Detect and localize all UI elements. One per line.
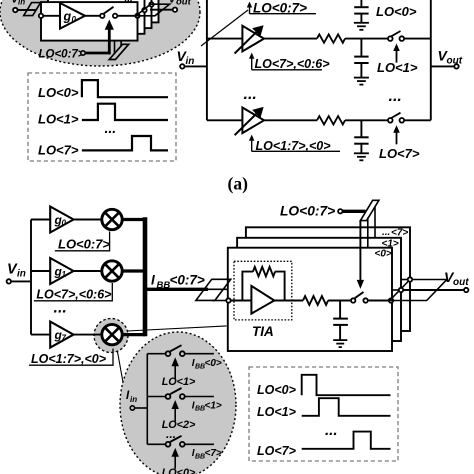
svg-text:in: in [186,56,195,67]
row3 resistor [317,116,345,124]
svg-text:<1>: <1> [205,400,222,411]
svg-text:LO<1>: LO<1> [377,60,418,75]
TIA op-amp triangle [251,286,274,314]
input bus vertical (a) [206,0,208,120]
row2 capacitor [354,39,368,78]
svg-text:<7>: <7> [391,228,408,239]
wire switch to output nodes [117,15,136,17]
input terminal Vin (bubble a) [11,0,25,12]
waveform LO<1> (a) [82,104,168,120]
svg-text:...: ... [382,227,390,238]
row2 variable amplifier [235,25,264,53]
wire bundle parallelogram (input, bubble a) [24,3,41,16]
label IBB<0:7> [151,273,205,292]
waveform LO<1> (b) [302,398,391,416]
LO<0:7> terminal and label (bubble a) [39,49,86,61]
output bus vertical (a) [430,0,432,120]
svg-text:LO<7>: LO<7> [38,143,79,158]
row3 switch control arrow [393,125,400,144]
svg-text:in: in [17,269,26,280]
svg-text:<7>: <7> [205,448,222,459]
stacked TIA box 1 (front, b) [228,248,392,351]
amplifier g7 (b) [50,322,73,348]
wire Iin to rail [135,407,148,409]
thin bus stub lower (input, b) [212,300,226,302]
svg-text:0: 0 [62,219,67,228]
svg-text:LO<7>: LO<7> [379,146,420,161]
thick LO arrow up [105,20,114,55]
row2 gain label LO<7>,<0:6> with arrow bracket [249,53,330,72]
svg-text:1: 1 [62,270,67,279]
wire bundle parallelogram (LO, b) [360,200,379,220]
svg-text:g: g [63,10,72,24]
wire switch to output node (b) [368,300,389,302]
row3 gain label LO<1:7>,<0> with arrow bracket [249,135,340,154]
amplifier g0 (bubble a) [60,3,85,29]
svg-text:<0:7>: <0:7> [170,273,205,288]
svg-text:...: ... [54,300,67,317]
node on box3 right edge [149,2,153,6]
row2 ground [354,78,369,85]
LO line to box2 [367,218,369,248]
zoom pointer line from bubble to row1 label [201,10,248,46]
row2 wire switch to output bus [404,38,431,40]
row2 switch [388,31,404,41]
bubble row1 control arrow [172,357,179,379]
svg-text:LO<0:7>: LO<0:7> [39,49,85,61]
stub and node on box3 right edge [401,277,412,281]
thick wire mixer1 to bus [122,218,145,221]
thick IBB<0:7> output line [145,288,208,291]
svg-text:LO<0>: LO<0> [257,383,297,397]
thick wire mixer2 to bus [122,269,145,272]
(b) input bus vertical [30,220,32,335]
wire bundle parallelogram (LO, bubble a) [109,40,129,60]
mixer M0 [102,209,122,229]
series resistor (b) [303,296,328,305]
wire bundle parallelogram (output, bubble a) [136,4,170,16]
svg-text:LO<7>,<0:6>: LO<7>,<0:6> [36,288,112,302]
svg-text:LO<7>: LO<7> [257,444,297,458]
TIA dotted box [234,261,292,320]
thick LO wire [85,52,110,55]
row1 (a, cut at top): label LO<0:7> with arrow bracket [247,1,316,16]
wire bundle parallelogram (input, b) [196,279,231,300]
node on box edge [39,14,43,18]
svg-text:in: in [130,395,137,404]
svg-text:...: ... [389,88,402,105]
main circuit (a) : input terminal Vin [177,48,195,69]
bubble row3 label IBB<7> [192,448,222,460]
output terminal Vout (bubble a) [169,0,192,12]
wire bundle parallelogram (output, b) [390,280,447,301]
input rail vertical (bubble b) [146,354,148,445]
svg-text:LO<1>: LO<1> [257,405,297,419]
output node on box1 right edge [389,298,393,302]
svg-text:LO<0>: LO<0> [38,85,79,100]
svg-text:I: I [151,273,155,288]
row3 (a): wire from bus corner to amp [207,119,243,121]
stub and node on box2 right edge [392,288,403,292]
row3 wire switch to output bus [404,119,431,121]
waveform legend box (a) [28,73,176,161]
row3 wire amp to resistor [264,119,317,121]
waveform LO<0> (b) [302,375,391,395]
svg-text:LO<1>: LO<1> [38,112,79,127]
wire TIA output to resistor [274,300,303,302]
svg-text:in: in [18,0,25,7]
(b) row3 wire bus to amp [31,334,50,336]
amplifier g0 (b) [50,207,73,233]
row2 switch control arrow [393,44,400,63]
wire node to amp [41,15,60,17]
thick LO wire (b) [343,210,366,213]
wire Vin to input bus [185,65,207,67]
svg-text:BB: BB [157,280,171,291]
svg-text:TIA: TIA [252,324,274,339]
svg-text:out: out [176,0,192,8]
waveform LO<0> (a) [82,80,168,97]
wire Vin to stack symbol [18,9,31,11]
svg-text:out: out [453,277,469,288]
cut text LO label top of bubble [126,0,132,2]
bubble switch row1: wire + switch [147,345,214,356]
bubble row2 control arrow [172,400,179,421]
label LO<1:7>,<0> under g7 with bracket [29,349,113,367]
stacked path box 1 (bubble a) [41,2,138,41]
row2 resistor [317,34,345,42]
row2 (a): wire from bus to amp [207,38,243,40]
svg-text:<0>: <0> [205,358,222,369]
row3 switch [388,113,404,123]
svg-text:LO<0:7>: LO<0:7> [58,237,110,252]
wire g7 to mixer3 [74,334,103,336]
svg-text:<0>: <0> [375,249,392,260]
TIA feedback resistor loop [242,267,284,301]
amplifier g1 (b) [50,258,73,284]
wire g1 to mixer2 [74,270,103,272]
row2 wire amp to resistor [264,38,317,40]
node on box2 right edge [142,8,146,12]
bubble row2 label IBB<1> [192,400,222,412]
row3 wire resistor to switch [345,119,388,121]
svg-text:...: ... [105,120,117,136]
output terminal Vout (b) [444,269,469,292]
svg-text:LO<1:7>,<0>: LO<1:7>,<0> [31,352,107,366]
label LO<7>,<0:6> under g1 with bracket [34,283,112,302]
wire stub into node [30,9,36,11]
LO line to box3 [374,207,376,238]
LO line to front switch with arrow [357,221,364,289]
svg-text:...: ... [244,86,257,103]
node on box1 right edge [135,14,139,18]
zoom pointer line right [127,326,227,331]
mixer M7 [102,324,122,344]
output terminal Vout (a) [431,48,463,69]
mixer M1 [102,261,122,281]
output switch (b) [351,292,368,303]
(b) wire Vin to bus [11,280,31,282]
zoom pointer line left [117,351,123,385]
stacked path box 4 (bubble a) [62,0,159,22]
thick wire mixer3 to bus [122,333,145,336]
svg-text:LO<7>,<0:6>: LO<7>,<0:6> [255,57,331,71]
Iin terminal (bubble b) [126,390,137,410]
label LO<0:7> under g0 with bracket [55,232,111,252]
svg-text:LO<1:7>,<0>: LO<1:7>,<0> [256,139,332,153]
row3 ground [354,153,369,160]
wire to Vout terminal [150,9,173,11]
bubble row1 label IBB<0> [192,358,222,370]
svg-text:(a): (a) [228,174,249,194]
stacked TIA box 3 (back, b) [246,227,410,331]
svg-text:LO<0>: LO<0> [376,4,417,19]
(b) row1 wire bus to amp [31,219,50,221]
wire to Vout terminal (b) [403,289,464,291]
svg-text:7: 7 [62,334,67,343]
(b) input terminal Vin [7,262,26,284]
zoom bubble ellipse (a) [0,0,200,66]
row3 variable amplifier [235,107,264,135]
LO<0:7> terminal and label (b) [280,204,342,219]
thin bus stub upper (input, b) [208,288,228,290]
row1 capacitor C0 (cut) [354,0,368,23]
svg-text:LO<0>: LO<0> [162,467,196,474]
stacked path box 3 (bubble a) [55,0,152,28]
row1 ground [354,23,369,30]
row2 wire resistor to switch [345,38,388,40]
switch (bubble a) [100,7,117,18]
waveform LO<7> (a) [82,136,168,150]
wire g0 to mixer1 [74,219,103,221]
svg-text:LO<1>: LO<1> [162,376,196,388]
svg-text:...: ... [325,422,338,439]
thick baseband bus vertical (b) [143,217,148,336]
wire resistor to switch (b) [328,300,351,302]
capacitor (b) [333,301,348,341]
waveform LO<7> (b) [302,432,391,449]
stacked path box 2 (bubble a) [48,0,145,34]
bubble row3 control arrow [172,448,179,469]
svg-text:0: 0 [72,15,77,24]
input node on box1 left edge (b) [226,298,230,302]
row3 capacitor [354,120,368,153]
wire TIA input from box edge [231,300,252,302]
dashed zoom circle around mixer M7 [94,319,128,353]
waveform legend box (b) [249,367,398,461]
ground (b) [333,340,347,347]
svg-text:LO<0:7>: LO<0:7> [280,204,335,219]
wire amp to switch [85,15,100,17]
bubble switch row3: wire + switch [147,436,214,447]
zoom bubble ellipse (b) mixer detail [120,332,236,474]
bubble switch row2: wire + switch [147,388,214,399]
(b) row2 wire bus to amp [31,270,50,272]
stacked TIA box 2 (b) [237,238,401,341]
